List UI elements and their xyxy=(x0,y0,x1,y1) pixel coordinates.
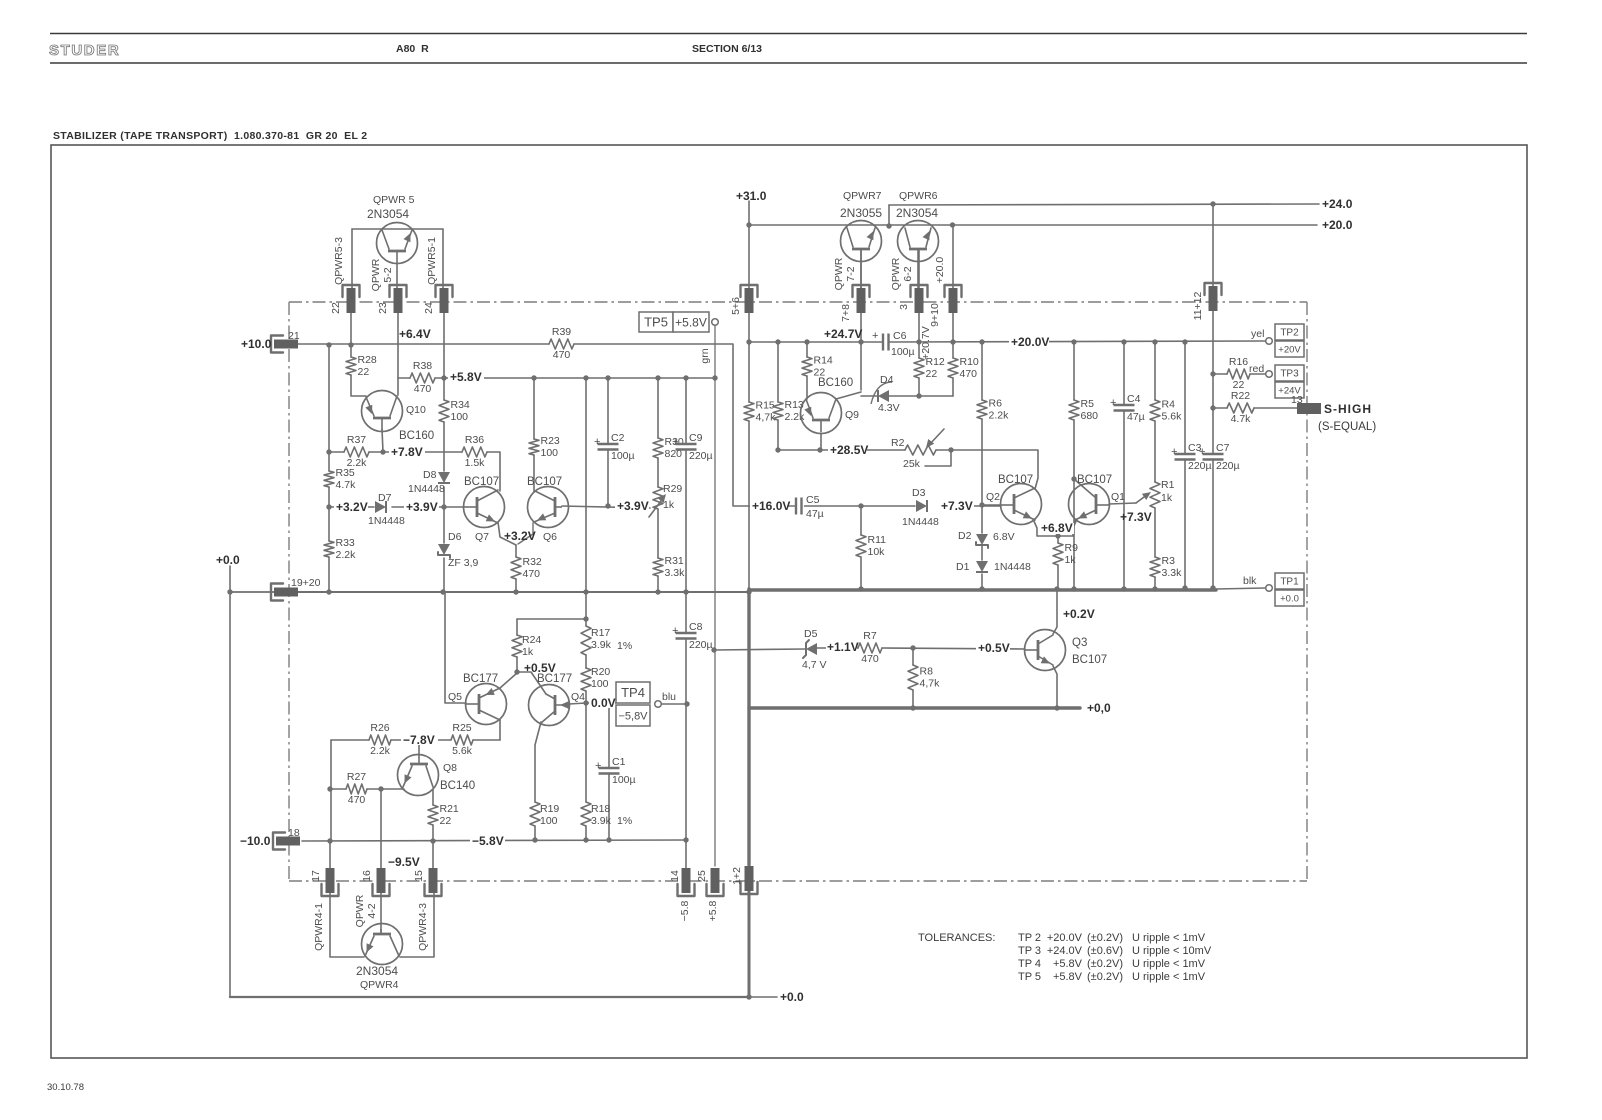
zener D2 xyxy=(958,530,1015,548)
svg-text:+: + xyxy=(672,625,678,637)
wire xyxy=(860,506,862,535)
svg-text:1k: 1k xyxy=(1161,492,1173,504)
svg-text:470: 470 xyxy=(523,568,541,580)
sheet title xyxy=(53,130,367,142)
svg-text:15: 15 xyxy=(413,870,425,882)
svg-text:Q4: Q4 xyxy=(571,691,585,703)
wire xyxy=(473,739,500,741)
svg-text:R6: R6 xyxy=(989,398,1003,410)
diode D8 xyxy=(408,469,450,495)
svg-text:2N3054: 2N3054 xyxy=(367,207,409,221)
resistor R15 xyxy=(744,400,776,424)
wire xyxy=(747,996,777,998)
svg-text:1+2: 1+2 xyxy=(731,867,743,885)
svg-text:24: 24 xyxy=(423,302,435,314)
svg-text:BC160: BC160 xyxy=(818,377,853,389)
potentiometer R2 xyxy=(891,429,944,470)
svg-text:−5.8: −5.8 xyxy=(679,900,691,921)
terminal 5+6 xyxy=(730,285,758,315)
svg-text:Q8: Q8 xyxy=(443,762,457,774)
svg-text:R36: R36 xyxy=(465,434,484,446)
svg-text:QPWR5-3: QPWR5-3 xyxy=(333,237,345,285)
wire xyxy=(487,452,500,491)
svg-text:−7.8V: −7.8V xyxy=(403,733,435,747)
terminal 11+12 xyxy=(1192,283,1222,320)
wire xyxy=(918,250,920,288)
svg-text:QPWR4: QPWR4 xyxy=(360,979,399,991)
wire xyxy=(889,204,1319,205)
wire xyxy=(585,703,587,802)
svg-text:BC160: BC160 xyxy=(399,430,434,442)
svg-text:4,7 V: 4,7 V xyxy=(802,659,827,671)
svg-text:+0.0: +0.0 xyxy=(216,553,240,567)
label QPWR4-1 xyxy=(313,903,325,951)
wire xyxy=(608,703,610,768)
resistor R38 xyxy=(410,360,435,395)
wire xyxy=(657,576,659,592)
wire xyxy=(982,504,1001,506)
wire xyxy=(1216,588,1265,589)
net label +0.5V a xyxy=(524,661,556,675)
transistor Q3 (BC107) xyxy=(1025,630,1108,671)
svg-text:+20.0: +20.0 xyxy=(1322,218,1353,232)
net label +7.3V b xyxy=(1120,510,1152,524)
svg-text:22: 22 xyxy=(926,368,938,380)
svg-text:22: 22 xyxy=(330,302,342,314)
capacitor C9 xyxy=(672,432,713,462)
svg-text:R21: R21 xyxy=(440,803,459,815)
svg-text:SECTION 6/13: SECTION 6/13 xyxy=(692,43,762,55)
wire xyxy=(302,840,687,841)
svg-text:1N4448: 1N4448 xyxy=(368,515,405,527)
wire xyxy=(685,592,687,633)
date xyxy=(47,1082,84,1093)
svg-text:5.6k: 5.6k xyxy=(452,745,473,757)
capacitor C6 xyxy=(872,330,915,358)
wire xyxy=(298,591,749,593)
label +20.7V vert xyxy=(920,326,932,360)
wire xyxy=(952,342,954,358)
test point TP5 xyxy=(639,312,718,332)
wire xyxy=(608,773,610,840)
resistor R10 xyxy=(948,356,979,380)
svg-text:+0.5V: +0.5V xyxy=(524,661,556,675)
svg-text:+0.0: +0.0 xyxy=(780,990,804,1004)
svg-text:D6: D6 xyxy=(448,531,462,543)
wire xyxy=(380,789,382,868)
svg-text:1N4448: 1N4448 xyxy=(902,516,939,528)
wire xyxy=(860,342,862,390)
zener D5 xyxy=(802,628,827,671)
wire xyxy=(1212,204,1214,286)
svg-text:(±0.2V): (±0.2V) xyxy=(1087,958,1123,970)
svg-text:D8: D8 xyxy=(423,469,437,481)
svg-text:220µ: 220µ xyxy=(689,450,713,462)
wire xyxy=(533,378,535,439)
wire xyxy=(889,395,953,397)
wire xyxy=(1057,536,1059,543)
svg-text:R14: R14 xyxy=(814,355,833,367)
wire xyxy=(952,313,954,342)
wire xyxy=(685,450,687,593)
wire xyxy=(1212,460,1214,589)
net label +6.4V xyxy=(399,327,431,341)
title A80 R xyxy=(396,43,429,55)
svg-text:7+8: 7+8 xyxy=(840,304,852,322)
net label -9.5V xyxy=(388,855,420,869)
svg-text:1k: 1k xyxy=(663,499,675,511)
svg-text:+20.0V: +20.0V xyxy=(1047,932,1083,944)
svg-text:D2: D2 xyxy=(958,530,972,542)
svg-text:+5.8V: +5.8V xyxy=(1053,958,1083,970)
resistor R36 xyxy=(462,434,487,469)
wire xyxy=(391,739,451,741)
capacitor C5 xyxy=(796,494,824,520)
net label +3.2V b xyxy=(504,529,536,543)
svg-text:+20V: +20V xyxy=(1278,344,1301,355)
svg-text:23: 23 xyxy=(377,302,389,314)
svg-text:100µ: 100µ xyxy=(612,774,636,786)
test point TP1 xyxy=(1243,573,1304,606)
transistor Q4 (BC177) xyxy=(529,673,586,726)
svg-text:BC107: BC107 xyxy=(1077,474,1112,486)
wire xyxy=(747,589,750,865)
resistor R33 xyxy=(324,537,356,561)
wire xyxy=(500,673,517,688)
svg-text:2N3054: 2N3054 xyxy=(356,964,398,978)
wire xyxy=(749,224,1317,226)
wire xyxy=(685,840,687,868)
label pin 13 xyxy=(1291,394,1303,406)
wire xyxy=(328,344,330,471)
svg-text:TP 3: TP 3 xyxy=(1018,945,1041,957)
svg-text:C7: C7 xyxy=(1216,442,1230,454)
wire xyxy=(432,841,434,868)
wire xyxy=(1073,342,1075,400)
svg-text:6.8V: 6.8V xyxy=(993,531,1015,543)
transistor Q1 (BC107) xyxy=(1069,474,1126,528)
label QPWR4-3 xyxy=(417,903,429,951)
wire xyxy=(860,313,862,342)
svg-text:+: + xyxy=(1110,397,1116,409)
wire xyxy=(861,395,878,397)
svg-text:19+20: 19+20 xyxy=(291,577,321,589)
resistor R8 xyxy=(908,665,940,690)
label QPWR7-2 xyxy=(833,257,857,290)
svg-text:470: 470 xyxy=(553,349,571,361)
net label S-EQUAL xyxy=(1318,421,1376,433)
module boundary right xyxy=(1306,302,1308,881)
wire xyxy=(860,250,862,288)
wire xyxy=(392,506,444,508)
svg-text:+6.8V: +6.8V xyxy=(1041,521,1073,535)
wire xyxy=(352,228,443,230)
svg-text:TP1: TP1 xyxy=(1280,577,1299,588)
svg-text:+3.9V: +3.9V xyxy=(406,500,438,514)
terminal 9+10 xyxy=(929,285,962,327)
wire xyxy=(517,618,586,620)
svg-text:U ripple < 10mV: U ripple < 10mV xyxy=(1132,945,1212,957)
svg-text:R34: R34 xyxy=(451,399,470,411)
svg-text:U ripple < 1mV: U ripple < 1mV xyxy=(1132,971,1206,983)
svg-text:D4: D4 xyxy=(880,374,894,386)
svg-text:R3: R3 xyxy=(1162,555,1176,567)
wire xyxy=(918,342,920,358)
wire xyxy=(329,506,374,508)
net label -5.8V xyxy=(470,834,505,848)
wire xyxy=(330,893,364,957)
wire xyxy=(329,451,344,453)
svg-text:+5.8: +5.8 xyxy=(707,900,719,921)
svg-text:C9: C9 xyxy=(689,432,703,444)
svg-text:3.3k: 3.3k xyxy=(665,567,686,579)
svg-text:C8: C8 xyxy=(689,621,703,633)
net label +7.3V a xyxy=(939,499,974,513)
svg-text:220µ: 220µ xyxy=(1188,460,1212,472)
svg-text:A80 R: A80 R xyxy=(396,43,429,55)
svg-text:QPWR4-3: QPWR4-3 xyxy=(417,903,429,951)
net label +0.2V xyxy=(1063,607,1095,621)
svg-text:(±0.2V): (±0.2V) xyxy=(1087,932,1123,944)
wire xyxy=(1033,519,1073,536)
svg-text:+: + xyxy=(1199,446,1205,458)
STUDER logo xyxy=(49,42,120,59)
wire xyxy=(432,789,434,805)
svg-text:470: 470 xyxy=(960,368,978,380)
header rule bottom xyxy=(50,62,1527,64)
resistor R11 xyxy=(856,534,886,558)
wire xyxy=(1123,411,1125,590)
wire xyxy=(515,579,517,592)
svg-text:−10.0: −10.0 xyxy=(240,834,271,848)
wire xyxy=(499,720,501,740)
wire xyxy=(585,655,587,668)
svg-text:22: 22 xyxy=(440,815,452,827)
wire xyxy=(936,450,1038,489)
wire xyxy=(715,649,806,650)
svg-text:BC107: BC107 xyxy=(1072,654,1107,666)
svg-text:R7: R7 xyxy=(863,630,877,642)
svg-text:+0.0: +0.0 xyxy=(1280,593,1299,604)
svg-text:R28: R28 xyxy=(358,354,377,366)
wire xyxy=(397,313,399,378)
svg-text:Q2: Q2 xyxy=(986,491,1000,503)
svg-text:R38: R38 xyxy=(413,360,432,372)
svg-text:16: 16 xyxy=(361,870,373,882)
svg-text:2.2k: 2.2k xyxy=(989,410,1010,422)
wire xyxy=(230,996,747,998)
svg-text:1%: 1% xyxy=(617,640,632,652)
svg-text:14: 14 xyxy=(669,870,681,882)
svg-text:D5: D5 xyxy=(804,628,818,640)
resistor R34 xyxy=(439,399,470,423)
wire xyxy=(586,702,616,704)
wire xyxy=(444,506,464,508)
svg-text:C6: C6 xyxy=(893,330,907,342)
wire xyxy=(443,507,445,543)
terminal 21 xyxy=(271,330,300,353)
terminal 13 xyxy=(1297,403,1321,414)
net label +1.1V xyxy=(826,639,859,654)
svg-text:S-HIGH: S-HIGH xyxy=(1324,402,1372,416)
label QPWR6-2 xyxy=(890,257,914,290)
wire xyxy=(748,201,750,288)
svg-text:D7: D7 xyxy=(378,492,392,504)
svg-text:2.2k: 2.2k xyxy=(347,457,368,469)
net label +7.8V xyxy=(389,445,425,459)
transistor QPWR4 (2N3054) xyxy=(356,924,403,992)
net label -7.8V xyxy=(401,733,438,747)
header rule top xyxy=(50,33,1527,35)
svg-text:R19: R19 xyxy=(540,803,559,815)
wire xyxy=(398,377,410,379)
wire xyxy=(1213,373,1227,375)
net label +28.5V xyxy=(828,443,868,457)
svg-text:3: 3 xyxy=(898,304,910,310)
wire xyxy=(714,326,716,866)
svg-text:Q7: Q7 xyxy=(475,531,489,543)
wire xyxy=(925,450,951,466)
terminal 22 xyxy=(330,285,360,314)
terminal 18 xyxy=(273,827,300,850)
wire xyxy=(382,429,383,452)
svg-text:R20: R20 xyxy=(591,666,610,678)
label grn xyxy=(699,348,711,363)
wire xyxy=(569,703,586,704)
wire xyxy=(607,450,609,507)
wire xyxy=(328,487,330,541)
resistor R28 xyxy=(346,354,377,378)
net label +10.0 xyxy=(241,337,272,351)
svg-text:4.7k: 4.7k xyxy=(336,479,357,491)
wire xyxy=(329,841,331,868)
svg-text:+3.2V: +3.2V xyxy=(504,529,536,543)
svg-text:QPWR: QPWR xyxy=(354,894,366,927)
transistor Q10 (BC160) xyxy=(362,391,435,443)
resistor R35 xyxy=(324,467,356,491)
svg-text:5.6k: 5.6k xyxy=(1162,411,1183,423)
resistor R32 xyxy=(511,556,542,580)
svg-text:Q9: Q9 xyxy=(845,409,859,421)
wire xyxy=(952,378,954,396)
net label +31.0 xyxy=(736,189,767,203)
resistor R39 xyxy=(549,326,574,361)
wire xyxy=(817,647,858,649)
wire xyxy=(418,740,420,757)
resistor R16 xyxy=(1227,356,1250,391)
svg-text:TP2: TP2 xyxy=(1280,328,1299,339)
wire xyxy=(981,574,983,589)
svg-text:2N3055: 2N3055 xyxy=(840,206,882,220)
resistor R30 xyxy=(653,436,684,460)
svg-text:+31.0: +31.0 xyxy=(736,189,767,203)
net label +3.2V a xyxy=(334,500,368,514)
svg-text:+: + xyxy=(872,330,878,342)
svg-text:2.2k: 2.2k xyxy=(336,549,357,561)
wire xyxy=(1184,460,1186,589)
svg-text:4,7k: 4,7k xyxy=(920,678,941,690)
svg-text:(S-EQUAL): (S-EQUAL) xyxy=(1318,421,1376,433)
transistor QPWR7 (2N3055) xyxy=(840,190,882,288)
svg-text:R11: R11 xyxy=(868,534,887,546)
svg-text:R22: R22 xyxy=(1231,390,1250,402)
transistor Q7 (BC107) xyxy=(464,476,505,543)
resistor R37 xyxy=(344,434,369,469)
svg-text:BC107: BC107 xyxy=(464,476,499,488)
svg-text:9+10: 9+10 xyxy=(929,303,941,327)
wire xyxy=(748,313,750,342)
wire xyxy=(685,639,687,705)
svg-text:BC177: BC177 xyxy=(463,673,498,685)
diode D1 xyxy=(956,561,1031,573)
svg-text:+5.8V: +5.8V xyxy=(450,370,482,384)
svg-text:C2: C2 xyxy=(611,432,625,444)
wire xyxy=(748,342,750,402)
terminal 24 xyxy=(423,285,453,314)
terminal 7+8 xyxy=(840,285,870,322)
svg-text:R1: R1 xyxy=(1161,479,1175,491)
wire xyxy=(1154,421,1156,482)
wire xyxy=(515,545,517,557)
svg-text:R25: R25 xyxy=(452,722,471,734)
svg-text:30.10.78: 30.10.78 xyxy=(47,1082,84,1093)
title SECTION 6/13 xyxy=(692,43,762,55)
net label +6.8V xyxy=(1039,521,1074,535)
transistor Q5 (BC177) xyxy=(448,673,507,725)
diode D3 xyxy=(902,487,939,528)
wire xyxy=(806,376,808,399)
wire xyxy=(882,648,1025,649)
svg-text:+0.5V: +0.5V xyxy=(978,641,1010,655)
net label +0.5V b xyxy=(976,641,1010,655)
svg-text:Q3: Q3 xyxy=(1072,637,1087,649)
wire xyxy=(435,377,444,379)
svg-text:+20.7V: +20.7V xyxy=(920,326,932,360)
wire xyxy=(657,378,659,438)
svg-text:25k: 25k xyxy=(903,458,921,470)
wire xyxy=(535,722,541,802)
label QPWR5-3 xyxy=(333,237,345,285)
wire xyxy=(748,890,751,997)
terminal 1+2 xyxy=(731,866,758,894)
svg-text:U ripple < 1mV: U ripple < 1mV xyxy=(1132,932,1206,944)
net label +16.0V xyxy=(750,499,790,513)
svg-text:4-2: 4-2 xyxy=(366,903,378,918)
resistor R22 xyxy=(1227,390,1254,425)
svg-text:+10.0: +10.0 xyxy=(241,337,272,351)
wire xyxy=(1057,565,1059,589)
svg-text:QPWR6: QPWR6 xyxy=(899,190,938,202)
wire xyxy=(351,229,353,288)
resistor R17 xyxy=(581,626,632,655)
svg-text:7-2: 7-2 xyxy=(845,266,857,281)
svg-text:1%: 1% xyxy=(617,815,632,827)
svg-text:100: 100 xyxy=(451,411,469,423)
svg-text:+6.4V: +6.4V xyxy=(399,327,431,341)
svg-text:blu: blu xyxy=(662,691,676,703)
transistor Q2 (BC107) xyxy=(986,474,1042,525)
svg-text:+24.0V: +24.0V xyxy=(1047,945,1083,957)
wire xyxy=(369,451,462,453)
terminal 23 xyxy=(377,285,407,314)
resistor R25 xyxy=(451,722,473,757)
net label S-HIGH xyxy=(1324,402,1372,416)
label +20.0 vert xyxy=(934,257,946,284)
svg-text:U ripple < 1mV: U ripple < 1mV xyxy=(1132,958,1206,970)
svg-text:+24.0: +24.0 xyxy=(1322,197,1353,211)
svg-text:R15: R15 xyxy=(756,400,775,412)
wire xyxy=(657,509,659,558)
